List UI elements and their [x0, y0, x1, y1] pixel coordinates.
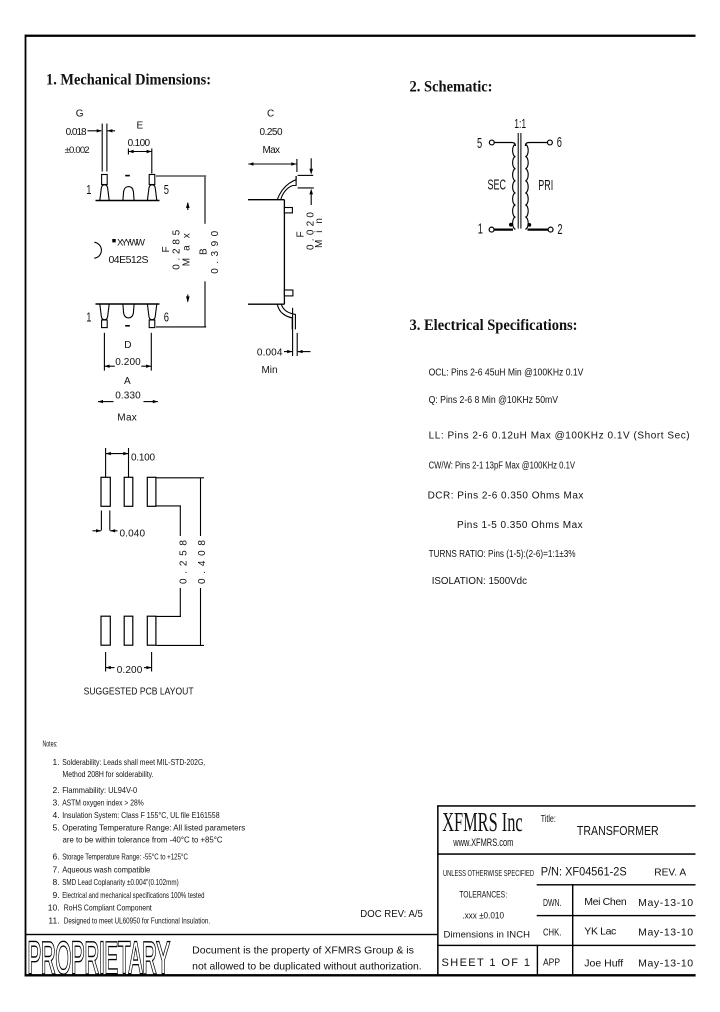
pin 1 terminal circle [489, 227, 494, 232]
pcb pad top-left [101, 477, 110, 506]
svg-text:TRANSFORMER: TRANSFORMER [577, 824, 659, 838]
side view body right edge [283, 200, 285, 305]
svg-text:0.200: 0.200 [115, 357, 141, 368]
svg-text:5: 5 [164, 184, 169, 198]
svg-text:A: A [124, 376, 131, 387]
dim F arrows (body height) [186, 202, 190, 208]
svg-text:RoHS Compliant Component: RoHS Compliant Component [64, 903, 153, 913]
dim A line with arrows [98, 401, 114, 403]
svg-text:DOC REV: A/5: DOC REV: A/5 [360, 908, 423, 920]
svg-text:CHK.: CHK. [543, 928, 561, 939]
dim F tick upper [298, 174, 314, 176]
core line left [517, 133, 519, 229]
svg-text:D: D [124, 340, 131, 351]
svg-text:Dimensions in INCH: Dimensions in INCH [444, 930, 531, 941]
svg-text:ISOLATION: 1500Vdc: ISOLATION: 1500Vdc [432, 576, 527, 587]
svg-text:1:1: 1:1 [514, 117, 526, 131]
svg-text:OCL: Pins 2-6 45uH Min @100KHz: OCL: Pins 2-6 45uH Min @100KHz 0.1V [429, 368, 584, 379]
svg-text:6: 6 [557, 134, 562, 151]
pcb pad bottom-middle [124, 616, 133, 645]
title block rule below P/N row [537, 884, 696, 885]
svg-text:May-13-10: May-13-10 [638, 958, 693, 970]
svg-text:1: 1 [86, 311, 91, 325]
package body bottom edge [96, 303, 160, 305]
proprietary box top edge [25, 934, 439, 935]
pin 1 indicator notch [94, 242, 101, 258]
dim D line with arrows [105, 365, 115, 367]
dim 0.004 left extension [292, 308, 294, 356]
dim 0.040 arrows [93, 530, 102, 532]
svg-text:5.: 5. [53, 823, 60, 833]
bottom middle pin [123, 304, 134, 318]
svg-text:Q: Pins 2-6 8 Min @10KHz 50mV: Q: Pins 2-6 8 Min @10KHz 50mV [429, 395, 559, 406]
title block top edge [437, 805, 695, 807]
svg-text:Notes:: Notes: [43, 739, 58, 749]
svg-text:not allowed to be duplicated w: not allowed to be duplicated without aut… [192, 961, 422, 972]
svg-text:G: G [76, 109, 84, 120]
svg-text:10.: 10. [48, 903, 60, 913]
svg-text:May-13-10: May-13-10 [638, 897, 693, 909]
svg-text:ASTM oxygen index > 28%: ASTM oxygen index > 28% [62, 798, 144, 808]
svg-text:DWN.: DWN. [543, 898, 561, 909]
svg-text:May-13-10: May-13-10 [638, 927, 693, 939]
core line right [520, 133, 522, 229]
border frame top [25, 35, 696, 37]
dim E extension lines [127, 149, 129, 155]
primary winding (PRI) [525, 145, 528, 230]
svg-text:6: 6 [164, 311, 169, 325]
svg-text:XFMRS Inc: XFMRS Inc [442, 807, 523, 837]
svg-text:Storage Temperature Range: -55: Storage Temperature Range: -55°C to +125… [62, 852, 188, 862]
pcb pad top-middle [124, 477, 133, 506]
svg-text:1.: 1. [53, 757, 60, 767]
svg-text:Max: Max [117, 412, 137, 423]
svg-text:E: E [137, 121, 144, 132]
svg-text:SMD Lead Coplanarity ±0.004"(0: SMD Lead Coplanarity ±0.004"(0.102mm) [62, 877, 179, 887]
svg-text:CW/W: Pins 2-1 13pF Max @100KH: CW/W: Pins 2-1 13pF Max @100KHz 0.1V [429, 461, 576, 472]
svg-text:Flammability: UL94V-0: Flammability: UL94V-0 [62, 785, 137, 795]
svg-text:0.200: 0.200 [117, 665, 143, 676]
dim 0.004 right arrow [298, 351, 311, 353]
pcb pad bottom-left [101, 616, 110, 645]
bottom pin 6 lead [147, 304, 156, 320]
svg-text:1. Mechanical Dimensions:: 1. Mechanical Dimensions: [46, 72, 211, 89]
svg-text:XYYWW: XYYWW [117, 238, 145, 249]
svg-text:Method 208H for solderability.: Method 208H for solderability. [63, 769, 154, 779]
pin 6 terminal circle [547, 140, 552, 145]
svg-text:F: F [161, 246, 172, 252]
svg-text:2. Schematic:: 2. Schematic: [410, 79, 493, 96]
top gull-wing lead [277, 176, 296, 200]
svg-text:SHEET 1 OF 1: SHEET 1 OF 1 [442, 957, 531, 969]
svg-text:C: C [267, 109, 274, 120]
svg-text:SUGGESTED PCB LAYOUT: SUGGESTED PCB LAYOUT [84, 687, 194, 698]
svg-text:Electrical and mechanical spec: Electrical and mechanical specifications… [62, 890, 204, 900]
dim B bottom extension [156, 326, 206, 328]
svg-text:±0.002: ±0.002 [65, 145, 90, 156]
secondary winding (SEC) [513, 145, 516, 230]
svg-text:Designed to meet UL60950 for F: Designed to meet UL60950 for Functional … [64, 916, 210, 926]
title block divider sheet/app [537, 945, 538, 975]
dim F tick lower [298, 187, 314, 189]
dim 0.200 line with arrows [106, 667, 115, 669]
svg-text:Min: Min [262, 365, 278, 376]
dim F lower pointer [309, 189, 313, 195]
title block outline left edge [437, 806, 439, 976]
dim 0.004 right extension [296, 333, 298, 356]
svg-text:Max: Max [182, 233, 193, 266]
marking line 1 XYYWW [112, 239, 115, 242]
svg-text:Document is the property of XF: Document is the property of XFMRS Group … [192, 946, 414, 957]
svg-text:REV. A: REV. A [654, 867, 686, 879]
svg-text:Pins 1-5 0.350 Ohms Max: Pins 1-5 0.350 Ohms Max [457, 520, 583, 531]
frame bottom edge [25, 974, 696, 976]
svg-text:.xxx ±0.010: .xxx ±0.010 [462, 911, 504, 922]
dim 0.040 extension lines [100, 511, 102, 531]
svg-text:8.: 8. [53, 877, 60, 887]
border frame left [25, 35, 27, 976]
svg-text:P/N: XF04561-2S: P/N: XF04561-2S [541, 867, 627, 879]
dim 0.408 upper extension [157, 477, 205, 479]
svg-text:Title:: Title: [541, 813, 556, 825]
side view body bottom edge [248, 303, 284, 305]
dim 0.200 extension lines [105, 652, 107, 672]
svg-text:DCR: Pins 2-6 0.350 Ohms Max: DCR: Pins 2-6 0.350 Ohms Max [428, 491, 584, 502]
svg-text:04E512S: 04E512S [109, 254, 149, 266]
side view body top edge [248, 199, 284, 201]
svg-text:1: 1 [86, 184, 91, 198]
svg-text:Min: Min [314, 218, 325, 248]
svg-text:0.004: 0.004 [257, 347, 283, 358]
svg-text:7.: 7. [53, 865, 60, 875]
pcb pad top-right [147, 477, 156, 506]
svg-text:1: 1 [478, 220, 483, 237]
dim C right extension line [296, 159, 298, 172]
svg-text:3. Electrical Specifications:: 3. Electrical Specifications: [410, 317, 578, 334]
svg-text:Aqueous wash compatible: Aqueous wash compatible [62, 865, 150, 875]
wire pin1 to secondary bottom [494, 229, 513, 231]
svg-text:SEC: SEC [488, 176, 507, 193]
top pin 1 lead [102, 175, 108, 185]
svg-text:4.: 4. [53, 810, 60, 820]
dim 0.100 extension lines [105, 448, 107, 477]
svg-text:2.: 2. [53, 785, 60, 795]
title block divider names column [572, 884, 573, 975]
title block rule below CHK row [437, 945, 695, 946]
svg-text:TOLERANCES:: TOLERANCES: [459, 890, 507, 901]
svg-text:0.408: 0.408 [197, 540, 208, 584]
dim 0.408 lower extension [157, 644, 205, 646]
svg-text:Mei Chen: Mei Chen [584, 896, 627, 908]
dim 0.258 upper extension [157, 505, 182, 507]
dim E line with arrows [128, 151, 151, 153]
polarity dot secondary [509, 223, 513, 227]
svg-text:Operating Temperature Range: A: Operating Temperature Range: All listed … [62, 823, 245, 833]
svg-text:Joe Huff: Joe Huff [584, 958, 623, 970]
svg-text:0.330: 0.330 [115, 390, 141, 401]
svg-text:5: 5 [477, 135, 482, 152]
svg-text:Max: Max [263, 145, 281, 156]
dim D extension lines [103, 333, 105, 371]
svg-text:B: B [199, 248, 210, 255]
svg-text:3.: 3. [53, 798, 60, 808]
svg-text:Solderability: Leads shall mee: Solderability: Leads shall meet MIL-STD-… [62, 757, 205, 767]
title block rule below title row [437, 853, 695, 855]
svg-text:6.: 6. [53, 852, 60, 862]
dim F upper pointer [310, 158, 312, 169]
svg-text:PRI: PRI [538, 176, 553, 193]
top view: dim G extension lines [101, 124, 103, 172]
pin 5 terminal circle [489, 140, 494, 145]
svg-text:2: 2 [557, 221, 562, 238]
dim B vertical line upper [204, 177, 206, 224]
pcb pad bottom-right [147, 616, 156, 645]
dim 0.004 left arrow [284, 351, 292, 353]
top pin 5 lead [149, 175, 155, 185]
svg-text:YK Lac: YK Lac [584, 926, 616, 938]
svg-text:LL: Pins 2-6 0.12uH Max @100KH: LL: Pins 2-6 0.12uH Max @100KHz 0.1V (Sh… [429, 430, 690, 441]
svg-text:0.390: 0.390 [210, 230, 221, 273]
package body top edge [96, 200, 160, 202]
top middle pin [123, 187, 134, 201]
svg-text:TURNS RATIO: Pins (1-5):(2-6)=: TURNS RATIO: Pins (1-5):(2-6)=1:1±3% [429, 549, 576, 560]
svg-text:11.: 11. [48, 916, 59, 926]
bottom pin 1 lead [100, 304, 109, 320]
dim 0.258 lower extension [157, 615, 182, 617]
svg-text:0.250: 0.250 [260, 127, 283, 138]
svg-text:UNLESS OTHERWISE SPECIFIED: UNLESS OTHERWISE SPECIFIED [443, 868, 534, 878]
svg-text:0.040: 0.040 [120, 528, 146, 539]
svg-text:0.100: 0.100 [131, 453, 155, 464]
svg-text:0.258: 0.258 [178, 540, 189, 584]
upper mounting tab [284, 208, 292, 213]
wire pin5 to secondary top [494, 143, 515, 147]
svg-text:are to be within tolerance fro: are to be within tolerance from -40°C to… [63, 835, 223, 845]
bottom gull-wing lead [277, 304, 292, 329]
svg-text:0.100: 0.100 [128, 138, 151, 149]
dim 0.258 vertical segments [179, 506, 181, 536]
dim C line with arrows [248, 163, 296, 165]
title block rule below DWN row [537, 915, 696, 916]
wire primary bottom to pin 2 [528, 229, 549, 231]
svg-text:PROPRIETARY: PROPRIETARY [28, 934, 170, 983]
polarity dot primary [527, 223, 531, 227]
dim B vertical line lower [204, 281, 206, 326]
svg-text:0.018: 0.018 [66, 127, 87, 138]
svg-text:9.: 9. [53, 890, 60, 900]
pin 2 terminal circle [548, 227, 553, 232]
dim G right arrow [108, 130, 115, 132]
svg-text:www.XFMRS.com: www.XFMRS.com [453, 837, 514, 849]
dim B top extension [156, 175, 206, 177]
svg-text:APP: APP [543, 958, 560, 969]
dim 0.100 line with arrows [106, 453, 129, 455]
wire primary top to pin 6 [525, 143, 547, 147]
dim G left arrow [88, 130, 102, 132]
lower mounting tab [284, 290, 293, 296]
svg-text:Insulation System: Class F 155: Insulation System: Class F 155°C, UL fil… [62, 810, 220, 820]
dim 0.408 vertical segments [200, 478, 202, 536]
